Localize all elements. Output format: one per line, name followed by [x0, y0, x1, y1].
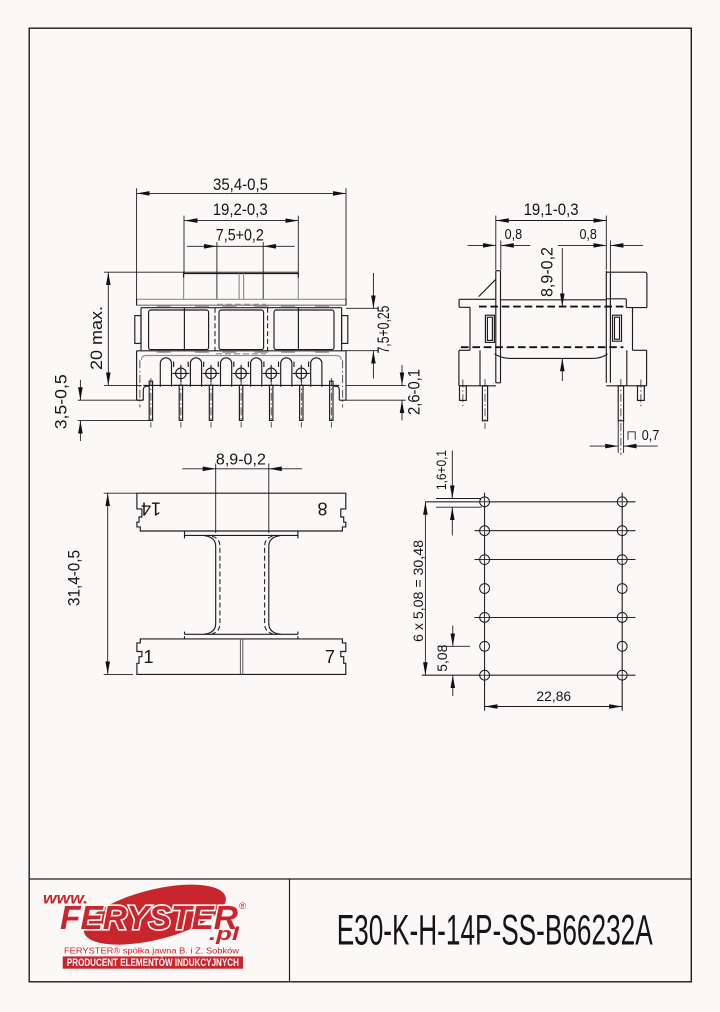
FERYSTER logo: red banner	[63, 956, 243, 969]
svg-text:®: ®	[239, 901, 246, 912]
FERYSTER logo: www.	[43, 891, 88, 908]
pin layout: pin circles	[480, 497, 627, 680]
front view: pin shoulder line	[143, 384, 339, 386]
top view: upper flange plate	[137, 493, 346, 531]
side view: left flange	[459, 271, 501, 386]
svg-text:PRODUCENT ELEMENTÓW INDUKCYJNY: PRODUCENT ELEMENTÓW INDUKCYJNYCH	[67, 956, 239, 969]
top view: dimension 8,9-0,2	[182, 452, 302, 534]
svg-text:5,08: 5,08	[435, 645, 450, 672]
svg-text:8,9-0,2: 8,9-0,2	[216, 452, 266, 469]
svg-text:8: 8	[317, 499, 327, 519]
svg-text:0,8: 0,8	[579, 227, 597, 243]
svg-text:1,6+0,1: 1,6+0,1	[434, 450, 449, 490]
side view: dimension square 0,7	[590, 428, 660, 446]
side view: right flange	[606, 271, 647, 386]
svg-text:35,4-0,5: 35,4-0,5	[213, 176, 268, 194]
svg-text:8,9-0,2: 8,9-0,2	[539, 247, 557, 297]
svg-text:.pl: .pl	[209, 924, 240, 944]
pin layout: dimension 22,86	[485, 689, 623, 707]
svg-text:E30-K-H-14P-SS-B66232A: E30-K-H-14P-SS-B66232A	[337, 908, 653, 955]
FERYSTER logo: wordmark	[60, 900, 246, 937]
svg-text:19,2-0,3: 19,2-0,3	[213, 201, 268, 219]
side view: pins	[460, 379, 645, 455]
pin layout: column centerlines	[485, 493, 623, 711]
top view: lower flange plate	[137, 639, 346, 675]
front view: middle section with tabs	[135, 306, 348, 354]
front view: dimension 7,5+0,25	[346, 273, 393, 379]
side view: dimension 0,8 right	[558, 227, 643, 272]
side view: dimension 8,9-0,2	[539, 247, 563, 381]
pin layout: dimension 1,6+0,1	[434, 450, 452, 536]
front view: dimension 2,6-0,1	[346, 365, 424, 421]
svg-text:7,5+0,25: 7,5+0,25	[375, 306, 393, 354]
svg-text:FERYSTER® spółka jawna B. i Z.: FERYSTER® spółka jawna B. i Z. Sobków	[64, 946, 240, 956]
front view: top winding block	[184, 272, 299, 299]
svg-text:6 x 5,08 = 30,48: 6 x 5,08 = 30,48	[411, 540, 426, 642]
side view: dimension 19,1-0,3	[496, 201, 607, 270]
top view: center column	[185, 531, 298, 639]
svg-text:31,4-0,5: 31,4-0,5	[66, 550, 84, 606]
pin layout: row lines	[422, 499, 636, 676]
front view: pin towers with solder eyes (pins 2-6)	[172, 362, 309, 386]
FERYSTER logo: red ellipse	[78, 873, 232, 957]
FERYSTER logo: .pl	[209, 924, 240, 944]
front view: pins 1-7 with centerlines	[140, 360, 343, 427]
front view: scallop arches	[160, 358, 322, 387]
front view: winding chambers	[149, 308, 334, 351]
svg-text:3,5-0,5: 3,5-0,5	[53, 374, 71, 429]
svg-text:2,6-0,1: 2,6-0,1	[406, 369, 424, 415]
side view: winding tube	[461, 300, 623, 359]
svg-text:7,5+0,2: 7,5+0,2	[216, 227, 264, 245]
svg-text:0,8: 0,8	[505, 227, 523, 243]
front view: dimension 3,5-0,5	[53, 374, 154, 441]
front view: dimension 35,4-0,5	[137, 176, 346, 299]
title block frame	[29, 879, 691, 982]
pin layout: dimension 5,08	[435, 626, 453, 697]
svg-text:1: 1	[143, 647, 153, 667]
part number E30-K-H-14P-SS-B66232A	[337, 908, 653, 955]
front view: dimension 7,5+0,2	[187, 227, 295, 300]
top view: dimension 31,4-0,5	[66, 493, 137, 674]
side view: dimension 0,8 left	[468, 227, 531, 270]
FERYSTER logo: company line	[64, 946, 240, 956]
front view: top flange band	[137, 299, 346, 306]
front view: dimension 19,2-0,3	[184, 201, 298, 273]
front view: pin base block	[137, 351, 346, 400]
svg-text:0,7: 0,7	[642, 428, 660, 444]
svg-text:20 max.: 20 max.	[88, 306, 106, 370]
svg-text:19,1-0,3: 19,1-0,3	[524, 201, 579, 219]
svg-text:7: 7	[325, 647, 335, 667]
pin layout: dimension 6 x 5,08 = 30,48	[411, 502, 426, 675]
svg-text:14: 14	[141, 499, 161, 519]
front view: dimension 20 max.	[88, 272, 298, 385]
pin layout: restore row line through circles	[422, 493, 636, 711]
svg-text:22,86: 22,86	[536, 689, 571, 704]
